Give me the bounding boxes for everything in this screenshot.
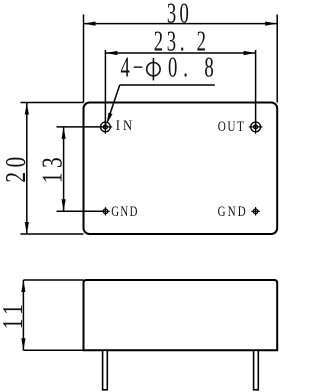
svg-text:11: 11 — [0, 300, 29, 330]
svg-text:OUT: OUT — [218, 117, 246, 134]
svg-text:4−: 4− — [121, 53, 147, 84]
pin IN — [99, 120, 113, 134]
svg-text:IN: IN — [116, 118, 135, 134]
side pin right — [254, 350, 259, 390]
dimension 23.2 — [105, 50, 255, 127]
side view body — [84, 280, 278, 350]
dimension 13 — [57, 127, 106, 211]
dimension 11 — [23, 280, 83, 350]
svg-text:30: 30 — [167, 0, 192, 30]
pin OUT — [249, 120, 263, 134]
svg-text:13: 13 — [38, 153, 69, 183]
svg-text:GND: GND — [111, 202, 139, 219]
dimension 30 — [84, 15, 278, 103]
svg-text:20: 20 — [1, 152, 32, 182]
dimension 20 — [21, 103, 84, 235]
pin GND right — [251, 207, 259, 215]
pin GND left — [101, 207, 109, 215]
svg-text:0. 8: 0. 8 — [168, 53, 220, 84]
module body top view — [84, 103, 278, 235]
phi diameter symbol — [147, 62, 160, 75]
svg-text:GND: GND — [218, 202, 248, 219]
side pin left — [103, 350, 108, 390]
